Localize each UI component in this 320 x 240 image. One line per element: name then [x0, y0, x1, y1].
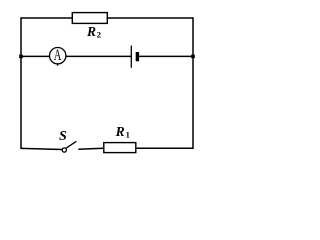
ammeter bottom tick: [57, 63, 59, 65]
svg-text:S: S: [59, 129, 67, 144]
svg-text:1: 1: [126, 129, 130, 139]
node: right junction dot: [191, 55, 195, 59]
resistor R2 box: [72, 13, 107, 24]
battery long plate (positive): [130, 46, 132, 68]
battery short thick plate (negative): [136, 52, 139, 61]
wire: top-left horizontal from corner to R2: [21, 17, 73, 19]
svg-text:2: 2: [97, 29, 101, 39]
wire: right vertical: [192, 17, 194, 149]
ammeter A (circle): [50, 48, 66, 64]
wire: bottom-right from R1 to corner: [136, 147, 193, 149]
svg-text:R: R: [86, 24, 96, 39]
wire: top-right horizontal from R2 to corner: [107, 17, 193, 19]
switch S pivot circle: [62, 148, 66, 152]
node: left junction dot: [19, 55, 23, 59]
svg-text:R: R: [115, 124, 125, 139]
wire: left vertical: [20, 17, 22, 149]
wire: middle from battery to right rail: [139, 55, 193, 57]
wire: bottom from switch to R1: [78, 148, 104, 149]
wire: middle from ammeter to battery: [66, 55, 131, 57]
switch S blade (open): [66, 141, 76, 148]
resistor R1 box: [104, 143, 136, 153]
wire: middle-left from left rail to ammeter: [21, 55, 49, 57]
wire: bottom-left from corner to switch: [21, 148, 62, 149]
svg-text:A: A: [54, 46, 62, 64]
